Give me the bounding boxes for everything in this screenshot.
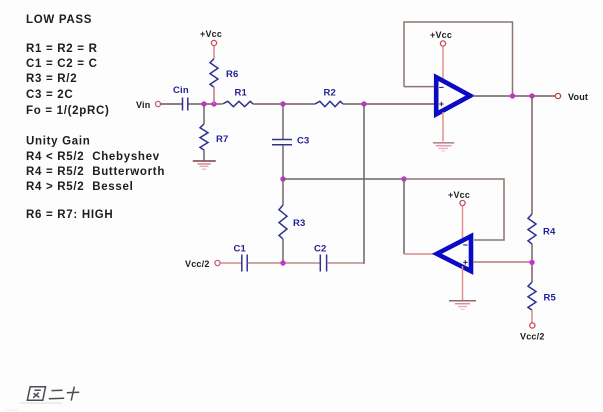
svg-text:C2: C2	[314, 244, 327, 255]
wire node D down to R3	[282, 179, 284, 205]
unity gain text block	[26, 136, 165, 222]
wire riser node C down to bottom rail	[363, 104, 365, 264]
op-amp U1 input marks	[439, 87, 443, 106]
node G junction dot (feedback tap)	[510, 93, 515, 98]
node B junction dot	[280, 101, 285, 106]
wire node D to node E (feedback rail)	[283, 178, 404, 180]
svg-text:Vcc/2: Vcc/2	[185, 259, 210, 269]
wire node B down to C3	[282, 104, 284, 139]
ground (U2)	[449, 301, 476, 310]
svg-text:R4 < R5/2 Chebyshev: R4 < R5/2 Chebyshev	[26, 151, 160, 163]
svg-text:R1 = R2 = R: R1 = R2 = R	[26, 43, 98, 55]
resistor R7	[200, 124, 208, 150]
terminal Vout	[555, 93, 560, 98]
svg-text:R3: R3	[293, 218, 306, 229]
terminal +Vcc U1	[440, 41, 445, 46]
terminal Vin	[155, 101, 160, 106]
wire node H down to R4	[531, 96, 533, 214]
node C junction dot	[361, 101, 366, 106]
capacitor Cin	[183, 98, 188, 111]
node A junction dots	[201, 101, 206, 106]
svg-text:C1 = C2 = C: C1 = C2 = C	[26, 58, 98, 70]
wire R1 to node B	[253, 103, 315, 105]
wire C1 to node F	[248, 262, 320, 264]
svg-text:LOW PASS: LOW PASS	[26, 14, 92, 26]
svg-text:R3 = R/2: R3 = R/2	[26, 73, 77, 85]
ground (R7)	[193, 161, 216, 169]
wire node A to R7	[203, 104, 205, 124]
wire U2 below to ground	[462, 266, 464, 300]
op-amp U2 feedback box	[404, 179, 504, 240]
svg-text:R4: R4	[543, 227, 556, 238]
svg-text:R4 > R5/2 Bessel: R4 > R5/2 Bessel	[26, 181, 133, 193]
wire Vin to Cin	[161, 103, 182, 105]
wire Vcc/2 to C1	[220, 262, 241, 264]
resistor R5	[528, 282, 536, 310]
wire U2 output	[404, 253, 434, 255]
ground (U1)	[433, 143, 454, 151]
terminal +Vcc R6	[211, 40, 216, 45]
wire U1 output to Vout	[473, 95, 556, 97]
wire R7 to ground	[203, 150, 205, 161]
svg-text:R7: R7	[216, 134, 229, 145]
op-amp U2	[437, 236, 471, 271]
wire R6 to node A	[213, 87, 215, 105]
svg-text:R4 = R5/2 Butterworth: R4 = R5/2 Butterworth	[26, 166, 165, 178]
terminal Vcc/2 bottom	[530, 323, 535, 328]
node I junction dot	[529, 260, 534, 265]
svg-text:Fo = 1/(2pRC): Fo = 1/(2pRC)	[26, 105, 110, 117]
wire R3 to bottom rail	[282, 239, 284, 263]
capacitor C3	[272, 140, 292, 145]
svg-text:C3: C3	[297, 136, 310, 147]
node D junction dot	[280, 176, 285, 181]
wire +Vcc to U1	[442, 46, 444, 80]
terminal Vcc/2 left	[215, 260, 220, 265]
svg-text:Vcc/2: Vcc/2	[520, 332, 545, 342]
svg-text:R6 = R7: HIGH: R6 = R7: HIGH	[26, 209, 113, 221]
figure caption 图二十 (drawn strokes)	[27, 387, 79, 401]
wire R2 to op-amp U1 non-inverting input	[343, 103, 435, 105]
op-amp U2 input marks	[463, 245, 467, 265]
svg-text:C1: C1	[234, 244, 247, 255]
svg-text:Unity Gain: Unity Gain	[26, 136, 91, 148]
resistor R6	[210, 59, 218, 88]
svg-text:Vin: Vin	[136, 100, 150, 110]
wire feedback to U1 inverting input	[404, 86, 436, 88]
capacitor C2	[320, 255, 326, 272]
capacitor C1	[242, 255, 247, 272]
svg-text:R1: R1	[235, 88, 248, 99]
equations text block	[26, 43, 110, 117]
wire node E down to U2 output	[403, 179, 405, 254]
node H junction dot (R4 tap)	[529, 93, 534, 98]
op-amp U1	[436, 77, 470, 114]
svg-text:+Vcc: +Vcc	[448, 190, 470, 200]
wire Cin to node A	[189, 103, 223, 105]
svg-text:R2: R2	[324, 88, 337, 99]
wire R5 to Vcc/2 terminal	[531, 310, 533, 323]
resistor R1	[223, 101, 254, 106]
svg-text:Cin: Cin	[173, 85, 189, 96]
wire U2 non-inverting input to node I	[473, 261, 532, 263]
svg-text:R6: R6	[226, 69, 239, 80]
node E junction dot	[401, 176, 406, 181]
node F junction dot	[280, 260, 285, 265]
wire +Vcc to U2	[462, 206, 464, 242]
svg-text:+Vcc: +Vcc	[430, 30, 452, 40]
svg-text:C3 = 2C: C3 = 2C	[26, 89, 73, 101]
svg-text:R5: R5	[544, 293, 557, 304]
wire +Vcc to R6	[213, 46, 215, 59]
svg-text:Vout: Vout	[568, 92, 588, 102]
op-amp U1 feedback box	[404, 22, 513, 96]
faint bottom smudge	[20, 402, 62, 404]
wire R4 to node I	[531, 244, 533, 282]
resistor R3	[279, 205, 287, 239]
resistor R4	[528, 214, 536, 244]
svg-text:+Vcc: +Vcc	[200, 29, 222, 39]
wire C2 to riser	[327, 262, 364, 264]
terminal +Vcc U2	[460, 200, 465, 205]
resistor R2	[315, 101, 343, 106]
wire U1 below to ground	[442, 112, 444, 142]
wire C3 to node D	[282, 145, 284, 179]
